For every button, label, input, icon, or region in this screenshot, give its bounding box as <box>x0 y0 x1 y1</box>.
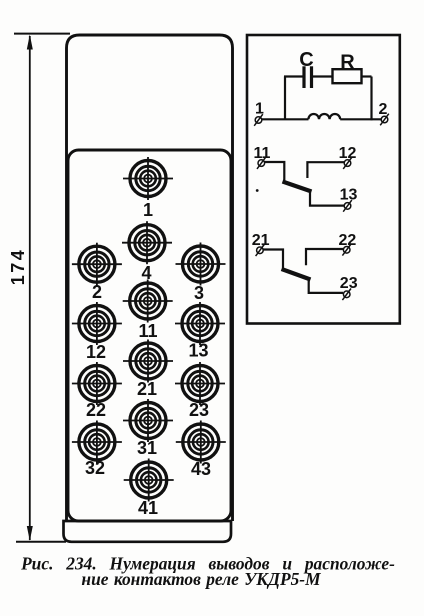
relay base flange <box>64 521 232 542</box>
dimension line 174 <box>27 35 33 541</box>
svg-text:22: 22 <box>339 232 357 249</box>
relay contact plate <box>68 150 231 521</box>
wire main from terminal 1 to coil <box>262 118 309 120</box>
pin 12 <box>72 302 122 345</box>
svg-text:2: 2 <box>92 282 102 302</box>
terminal 21 <box>256 245 265 257</box>
pin 3 <box>176 243 226 286</box>
dimension extension line top <box>14 33 70 35</box>
svg-text:23: 23 <box>340 275 358 292</box>
wire branch top to capacitor <box>284 75 303 77</box>
svg-text:174: 174 <box>8 248 28 286</box>
wire main from coil to terminal 2 <box>340 118 382 120</box>
svg-text:C: C <box>299 49 313 71</box>
pin 21 <box>123 340 173 383</box>
pin 41 <box>124 459 174 502</box>
svg-text:R: R <box>340 52 355 74</box>
terminal 1 <box>254 114 263 126</box>
svg-text:11: 11 <box>138 321 157 341</box>
wire capacitor to resistor <box>313 75 333 77</box>
resistor R <box>333 69 362 83</box>
wire arm to terminal 13 <box>310 190 344 206</box>
inductor coil L <box>308 114 340 119</box>
svg-text:31: 31 <box>137 438 157 458</box>
movable contact arm 21 <box>282 269 311 280</box>
terminal 13 <box>343 200 352 212</box>
pin 11 <box>123 280 173 323</box>
terminal 11 <box>257 157 266 169</box>
pin 23 <box>175 362 225 405</box>
pin 43 <box>176 421 226 464</box>
wire fixed contact 12 <box>307 162 344 178</box>
wire arm to terminal 23 <box>309 278 343 293</box>
terminal 12 <box>343 157 352 169</box>
wire branch left vertical <box>284 77 286 121</box>
pin 13 <box>175 302 225 345</box>
svg-text:41: 41 <box>138 498 158 518</box>
terminal 23 <box>342 289 351 301</box>
wire fixed contact 22 <box>306 249 343 265</box>
svg-text:13: 13 <box>340 187 358 204</box>
relay cover outline <box>67 35 233 521</box>
wire from terminal 11 <box>265 162 285 181</box>
svg-text:43: 43 <box>191 459 211 479</box>
pin 22 <box>72 362 122 405</box>
svg-text:22: 22 <box>86 400 106 420</box>
svg-text:12: 12 <box>86 342 106 362</box>
svg-text:23: 23 <box>189 400 209 420</box>
movable contact arm 11 <box>283 182 312 192</box>
wire branch right vertical <box>370 77 372 121</box>
terminal 22 <box>342 244 351 256</box>
svg-text:11: 11 <box>254 145 271 162</box>
svg-text:2: 2 <box>379 101 388 118</box>
svg-text:1: 1 <box>143 200 153 220</box>
svg-text:12: 12 <box>339 145 357 162</box>
schematic box <box>247 35 400 324</box>
pin 32 <box>72 421 122 464</box>
svg-text:ние контактов реле УКДР5-М: ние контактов реле УКДР5-М <box>81 569 321 589</box>
wire resistor to right vertical <box>362 75 372 77</box>
svg-text:3: 3 <box>194 283 204 303</box>
scan dot artifact <box>256 189 259 192</box>
dimension extension line bottom <box>16 541 66 543</box>
svg-text:1: 1 <box>255 101 264 118</box>
pin 2 <box>72 243 122 286</box>
capacitor C <box>304 66 312 88</box>
svg-text:21: 21 <box>137 379 157 399</box>
pin 31 <box>123 399 173 442</box>
svg-text:4: 4 <box>141 263 151 283</box>
pin 1 <box>123 157 173 200</box>
terminal 2 <box>380 114 389 126</box>
wire from terminal 21 <box>263 250 283 269</box>
pin 4 <box>122 221 172 264</box>
svg-text:21: 21 <box>252 232 270 249</box>
svg-text:32: 32 <box>85 458 105 478</box>
svg-text:13: 13 <box>188 341 208 361</box>
